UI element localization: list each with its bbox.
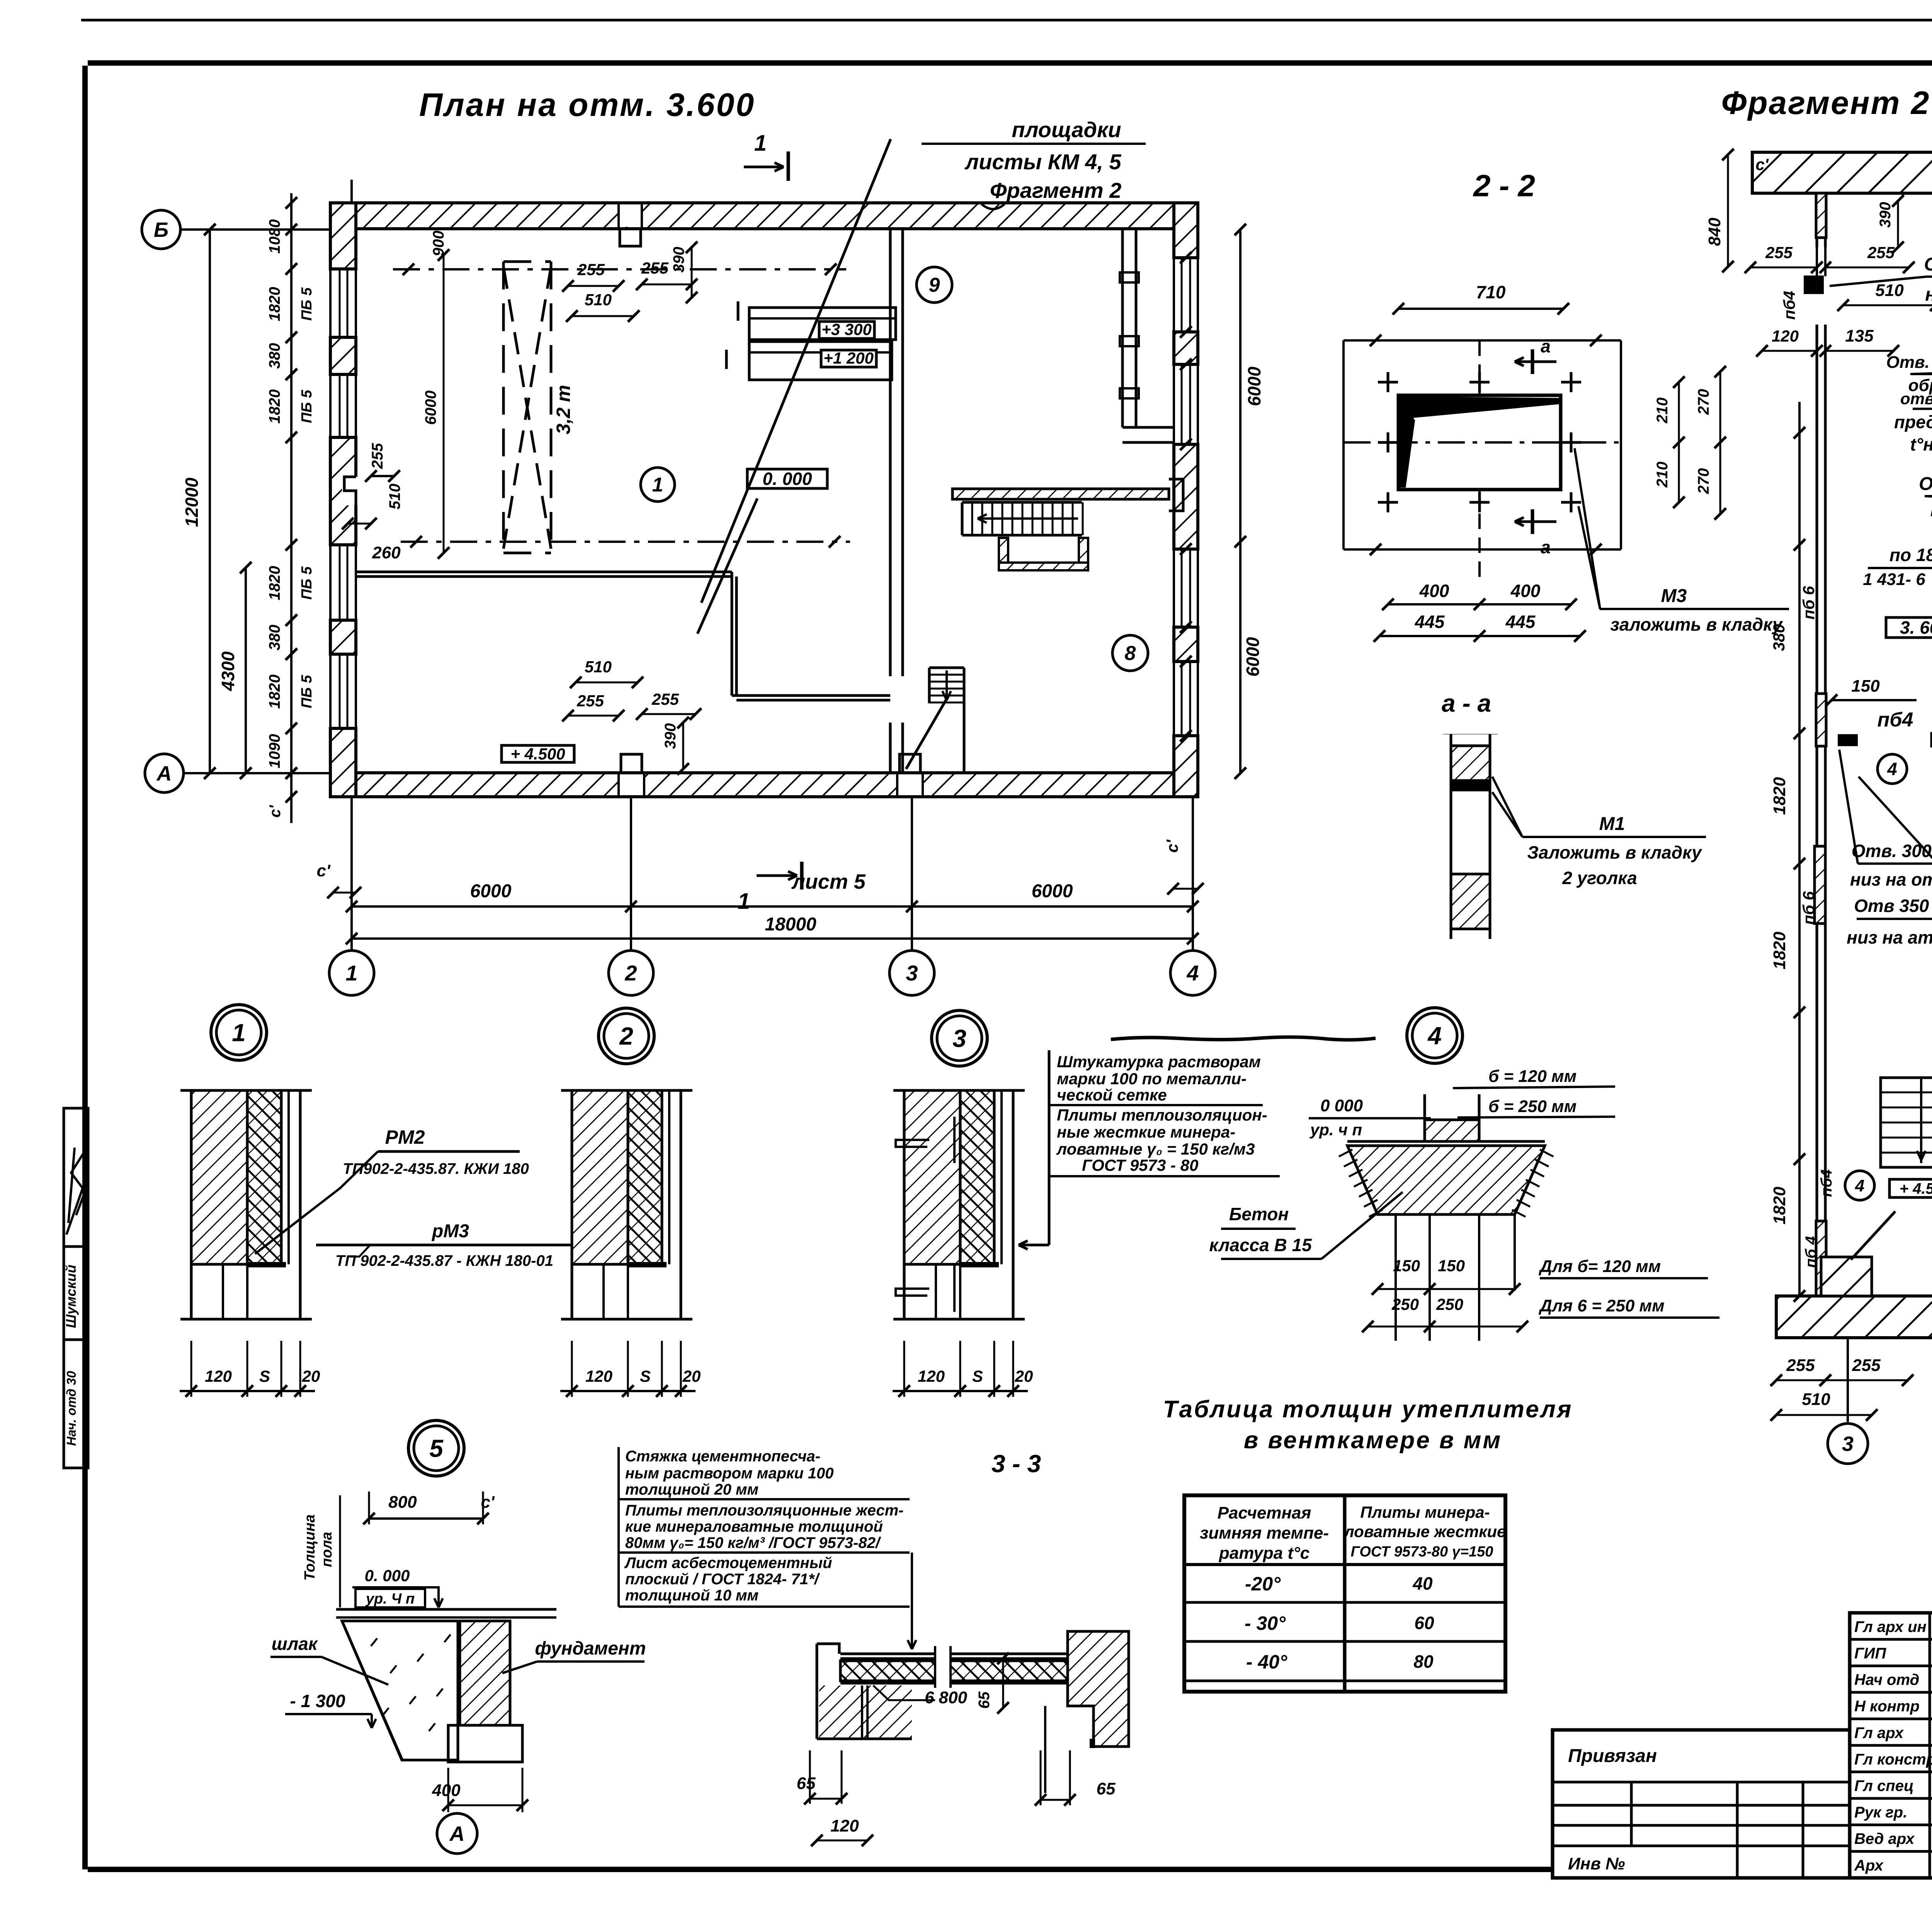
svg-text:390: 390 [670, 247, 687, 273]
svg-text:б = 120 мм: б = 120 мм [1488, 1067, 1577, 1086]
svg-text:65: 65 [797, 1774, 816, 1793]
svg-text:Рук гр.: Рук гр. [1854, 1804, 1907, 1821]
svg-text:+ 4.500: + 4.500 [1900, 1180, 1932, 1197]
svg-text:отв 710 х 420 ОВ низ на отм 4: отв 710 х 420 ОВ низ на отм 4 060 [1900, 389, 1932, 408]
svg-text:Отв 700 х 700 ОВ: Отв 700 х 700 ОВ [1924, 254, 1932, 275]
svg-text:ПБ 5: ПБ 5 [299, 287, 315, 321]
svg-text:3: 3 [1842, 1432, 1854, 1456]
svg-text:0. 000: 0. 000 [763, 469, 812, 489]
svg-text:20: 20 [302, 1367, 320, 1385]
svg-text:+3 300: +3 300 [821, 320, 872, 338]
svg-text:510: 510 [386, 484, 403, 510]
svg-text:255: 255 [369, 443, 386, 469]
svg-text:ГОСТ 9573 - 80: ГОСТ 9573 - 80 [1082, 1156, 1198, 1174]
svg-text:255: 255 [641, 259, 669, 277]
svg-text:Гл констр.: Гл констр. [1854, 1751, 1932, 1768]
svg-text:3,2 т: 3,2 т [553, 385, 574, 434]
svg-text:Плиты теплоизоляционные жест-: Плиты теплоизоляционные жест- [625, 1502, 904, 1519]
svg-text:20: 20 [682, 1367, 701, 1385]
svg-text:380: 380 [266, 625, 283, 651]
svg-text:1: 1 [345, 961, 357, 985]
svg-text:1820: 1820 [1770, 932, 1789, 969]
svg-text:фундамент: фундамент [535, 1638, 646, 1659]
svg-text:Н контр: Н контр [1854, 1698, 1920, 1715]
svg-text:Фрагмент 2: Фрагмент 2 [990, 178, 1121, 202]
svg-text:шлак: шлак [272, 1634, 318, 1654]
svg-text:класса В 15: класса В 15 [1209, 1235, 1312, 1255]
svg-text:ТП 902-2-435.87 - КЖН 180-01: ТП 902-2-435.87 - КЖН 180-01 [335, 1252, 553, 1269]
svg-text:120: 120 [918, 1367, 945, 1385]
svg-text:65: 65 [976, 1691, 993, 1709]
svg-text:c': c' [267, 805, 284, 818]
svg-text:Нач отд: Нач отд [1854, 1672, 1919, 1689]
svg-text:Лист асбестоцементный: Лист асбестоцементный [624, 1554, 832, 1571]
svg-text:заложить в кладку: заложить в кладку [1610, 614, 1783, 634]
svg-text:+1 200: +1 200 [823, 349, 874, 367]
svg-text:2: 2 [624, 961, 637, 985]
svg-text:4: 4 [1186, 961, 1199, 985]
svg-text:t°н = - 40°с: t°н = - 40°с [1910, 434, 1932, 454]
svg-text:ГОСТ 9573-80 γ=150: ГОСТ 9573-80 γ=150 [1351, 1544, 1493, 1560]
svg-text:М3: М3 [1661, 586, 1687, 606]
svg-text:270: 270 [1695, 389, 1712, 415]
svg-text:1820: 1820 [266, 675, 283, 709]
svg-text:Отв 350 х 350 ОВ: Отв 350 х 350 ОВ [1854, 896, 1932, 916]
svg-text:20: 20 [1015, 1367, 1033, 1385]
svg-text:120: 120 [830, 1816, 859, 1835]
svg-text:255: 255 [1852, 1356, 1881, 1375]
svg-text:120: 120 [585, 1367, 612, 1385]
svg-text:3: 3 [906, 961, 918, 985]
svg-text:210: 210 [1654, 462, 1671, 488]
svg-text:ур. Ч п: ур. Ч п [365, 1591, 415, 1607]
svg-text:250: 250 [1391, 1295, 1419, 1313]
svg-text:260: 260 [372, 543, 401, 562]
svg-text:1820: 1820 [266, 566, 283, 600]
svg-text:400: 400 [1419, 581, 1449, 601]
svg-text:Плиты минера-: Плиты минера- [1360, 1503, 1490, 1521]
svg-text:120: 120 [1772, 327, 1799, 345]
svg-text:толщиной 20 мм: толщиной 20 мм [625, 1481, 759, 1498]
svg-text:380: 380 [266, 343, 283, 369]
svg-text:Арх: Арх [1854, 1857, 1884, 1874]
svg-text:c': c' [317, 861, 331, 880]
svg-text:ческой сетке: ческой сетке [1057, 1086, 1167, 1104]
svg-text:лист 5: лист 5 [791, 870, 866, 893]
svg-text:Фрагмент 2: Фрагмент 2 [1721, 85, 1930, 121]
svg-text:445: 445 [1415, 612, 1445, 632]
svg-text:800: 800 [388, 1493, 417, 1512]
svg-text:ные жесткие минера-: ные жесткие минера- [1057, 1123, 1235, 1141]
svg-text:255: 255 [1786, 1356, 1815, 1375]
svg-text:8: 8 [1125, 642, 1136, 665]
svg-text:65: 65 [1097, 1779, 1116, 1798]
svg-text:М1: М1 [1599, 814, 1625, 834]
svg-text:Штукатурка растворам: Штукатурка растворам [1057, 1053, 1261, 1071]
svg-text:пб4: пб4 [1818, 1169, 1835, 1197]
svg-text:Нач. отд 30: Нач. отд 30 [64, 1371, 78, 1446]
svg-text:255: 255 [577, 692, 604, 710]
svg-text:2: 2 [619, 1022, 633, 1050]
svg-text:Таблица толщин утеплителя: Таблица толщин утеплителя [1163, 1396, 1573, 1423]
svg-text:1090: 1090 [266, 734, 283, 769]
svg-text:510: 510 [1875, 281, 1904, 300]
svg-text:390: 390 [1877, 202, 1894, 228]
svg-text:510: 510 [585, 291, 612, 309]
svg-text:Гл спец: Гл спец [1854, 1777, 1914, 1794]
svg-text:предусмотреть только для: предусмотреть только для [1894, 412, 1932, 432]
svg-text:S: S [640, 1367, 651, 1385]
svg-text:Стяжка цементнопесча-: Стяжка цементнопесча- [625, 1448, 820, 1465]
svg-text:255: 255 [1867, 243, 1895, 262]
svg-text:1 431- 6: 1 431- 6 [1863, 570, 1925, 589]
svg-text:12000: 12000 [182, 478, 202, 527]
svg-text:1080: 1080 [266, 219, 283, 254]
svg-text:а: а [1541, 537, 1551, 557]
svg-text:710: 710 [1476, 282, 1506, 302]
svg-text:6000: 6000 [1032, 881, 1073, 901]
svg-text:210: 210 [1654, 398, 1671, 424]
svg-text:Для б= 120 мм: Для б= 120 мм [1538, 1257, 1661, 1276]
svg-text:по 18: по 18 [1889, 545, 1932, 565]
svg-text:ловатные жесткие: ловатные жесткие [1344, 1522, 1506, 1541]
svg-text:ТП902-2-435.87. КЖИ 180: ТП902-2-435.87. КЖИ 180 [343, 1160, 529, 1177]
svg-text:ПБ 5: ПБ 5 [299, 389, 315, 423]
svg-text:-20°: -20° [1245, 1573, 1281, 1595]
svg-text:ГИП: ГИП [1854, 1645, 1886, 1662]
svg-text:низ на отм 6. 6 50: низ на отм 6. 6 50 [1850, 869, 1932, 889]
svg-text:- 1 300: - 1 300 [290, 1691, 345, 1711]
svg-text:4: 4 [1427, 1022, 1442, 1049]
svg-text:в венткамере в мм: в венткамере в мм [1244, 1427, 1502, 1454]
svg-text:S: S [972, 1367, 983, 1385]
svg-text:510: 510 [585, 658, 612, 676]
svg-text:Плиты теплоизоляцион-: Плиты теплоизоляцион- [1057, 1106, 1267, 1124]
svg-text:390: 390 [662, 723, 679, 749]
svg-text:S: S [259, 1367, 270, 1385]
svg-text:Отв. 300 х 300 ОВ: Отв. 300 х 300 ОВ [1852, 841, 1932, 861]
svg-text:4: 4 [1855, 1176, 1864, 1195]
svg-text:2 уголка: 2 уголка [1562, 868, 1637, 888]
svg-text:- 40°: - 40° [1246, 1651, 1287, 1673]
svg-text:ловатные γ₀ = 150 кг/м3: ловатные γ₀ = 150 кг/м3 [1056, 1140, 1255, 1158]
svg-text:1820: 1820 [1770, 777, 1789, 815]
svg-text:ПБ 5: ПБ 5 [299, 675, 315, 708]
svg-text:6 800: 6 800 [925, 1688, 968, 1707]
svg-text:низ на атм. 7. 600: низ на атм. 7. 600 [1847, 927, 1932, 947]
svg-text:4: 4 [1887, 759, 1897, 779]
svg-text:150: 150 [1393, 1257, 1420, 1275]
svg-text:листы КМ 4, 5: листы КМ 4, 5 [964, 150, 1121, 174]
svg-text:3. 600: 3. 600 [1900, 617, 1932, 638]
svg-text:Расчетная: Расчетная [1218, 1503, 1311, 1522]
svg-text:Привязан: Привязан [1568, 1746, 1657, 1766]
svg-text:Вед арх: Вед арх [1854, 1830, 1915, 1847]
svg-text:пб4: пб4 [1780, 291, 1798, 320]
svg-text:Отв 505 х 1250 ОВ: Отв 505 х 1250 ОВ [1919, 474, 1932, 494]
svg-text:пб 6: пб 6 [1799, 891, 1818, 925]
svg-text:80: 80 [1413, 1651, 1434, 1672]
svg-text:2 - 2: 2 - 2 [1473, 168, 1535, 203]
svg-text:4300: 4300 [218, 651, 238, 691]
svg-text:А: А [156, 762, 172, 785]
svg-text:1: 1 [754, 131, 767, 156]
svg-text:1: 1 [652, 474, 663, 496]
svg-text:255: 255 [651, 690, 679, 708]
svg-text:9: 9 [929, 274, 940, 296]
svg-text:План на отм. 3.600: План на отм. 3.600 [419, 87, 755, 123]
svg-text:б = 250 мм: б = 250 мм [1488, 1097, 1577, 1116]
svg-text:80мм γ₀= 150 кг/м³ /ГОСТ 9573-: 80мм γ₀= 150 кг/м³ /ГОСТ 9573-82/ [625, 1534, 881, 1551]
svg-text:1820: 1820 [266, 287, 283, 321]
svg-text:6000: 6000 [422, 391, 439, 425]
svg-text:ур. ч п: ур. ч п [1310, 1121, 1362, 1139]
svg-text:1: 1 [232, 1019, 246, 1046]
svg-text:ным раствором марки 100: ным раствором марки 100 [625, 1465, 834, 1482]
svg-text:РМ2: РМ2 [385, 1126, 425, 1148]
svg-text:Толщина: Толщина [302, 1514, 318, 1580]
svg-text:Для 6 = 250 мм: Для 6 = 250 мм [1538, 1296, 1665, 1315]
svg-text:ратура t°c: ратура t°c [1219, 1544, 1310, 1563]
svg-text:пб4: пб4 [1878, 709, 1913, 731]
svg-text:6000: 6000 [470, 881, 512, 901]
svg-text:510: 510 [1802, 1390, 1830, 1409]
svg-text:255: 255 [1765, 243, 1793, 262]
svg-text:низ на отм 3 900: низ на отм 3 900 [1930, 500, 1932, 520]
svg-text:Гл арх: Гл арх [1854, 1725, 1904, 1742]
svg-text:40: 40 [1412, 1573, 1433, 1594]
svg-text:840: 840 [1705, 218, 1724, 246]
svg-text:А: А [449, 1822, 465, 1845]
svg-text:60: 60 [1414, 1613, 1434, 1633]
svg-text:1: 1 [738, 889, 750, 914]
svg-text:150: 150 [1851, 677, 1880, 696]
svg-text:255: 255 [577, 260, 605, 279]
svg-text:445: 445 [1505, 612, 1536, 632]
svg-text:0 000: 0 000 [1320, 1096, 1363, 1115]
svg-text:- 30°: - 30° [1245, 1612, 1286, 1634]
svg-text:1820: 1820 [1770, 1187, 1789, 1225]
svg-text:135: 135 [1845, 327, 1874, 345]
svg-text:Б: Б [154, 218, 168, 241]
svg-text:250: 250 [1436, 1295, 1463, 1313]
svg-text:зимняя темпе-: зимняя темпе- [1200, 1524, 1329, 1543]
svg-text:150: 150 [1438, 1257, 1465, 1275]
svg-text:Гл арх ин: Гл арх ин [1854, 1618, 1927, 1635]
svg-text:400: 400 [1510, 581, 1541, 601]
svg-text:Заложить в кладку: Заложить в кладку [1527, 842, 1702, 862]
svg-text:рМ3: рМ3 [431, 1221, 469, 1242]
svg-text:низ на отм 6 450: низ на отм 6 450 [1925, 284, 1932, 305]
svg-text:+ 4.500: + 4.500 [510, 745, 565, 763]
svg-text:пола: пола [319, 1532, 335, 1567]
svg-text:c': c' [1755, 155, 1769, 173]
svg-text:1820: 1820 [266, 389, 283, 424]
svg-text:кие минераловатные толщиной: кие минераловатные толщиной [625, 1518, 883, 1535]
svg-text:толщиной 10 мм: толщиной 10 мм [625, 1587, 759, 1604]
svg-text:Шумский: Шумский [63, 1265, 79, 1328]
svg-text:5: 5 [429, 1434, 444, 1462]
svg-text:а - а: а - а [1442, 689, 1491, 717]
svg-text:ПБ 5: ПБ 5 [299, 566, 315, 600]
svg-text:6000: 6000 [1243, 637, 1263, 677]
svg-text:6000: 6000 [1244, 366, 1264, 406]
svg-text:3 - 3: 3 - 3 [992, 1450, 1041, 1478]
svg-text:270: 270 [1695, 468, 1712, 495]
svg-text:18000: 18000 [765, 914, 816, 935]
svg-text:плоский / ГОСТ 1824- 71*/: плоский / ГОСТ 1824- 71*/ [625, 1571, 820, 1588]
svg-text:пб 4: пб 4 [1803, 1236, 1820, 1268]
svg-text:марки 100 по металли-: марки 100 по металли- [1057, 1070, 1247, 1088]
svg-text:3: 3 [952, 1024, 966, 1052]
svg-text:120: 120 [205, 1367, 232, 1385]
svg-text:пб 6: пб 6 [1799, 586, 1818, 619]
svg-text:Бетон: Бетон [1229, 1204, 1289, 1224]
svg-text:площадки: площадки [1012, 117, 1121, 142]
svg-text:а: а [1541, 336, 1551, 356]
svg-text:0. 000: 0. 000 [365, 1566, 410, 1585]
svg-text:400: 400 [432, 1781, 461, 1800]
svg-text:Отв. 660 х1050 ОВ низ на отм.: Отв. 660 х1050 ОВ низ на отм. 3 720 [1886, 353, 1932, 372]
svg-text:c': c' [1163, 839, 1181, 852]
svg-text:Инв №: Инв № [1568, 1854, 1625, 1873]
